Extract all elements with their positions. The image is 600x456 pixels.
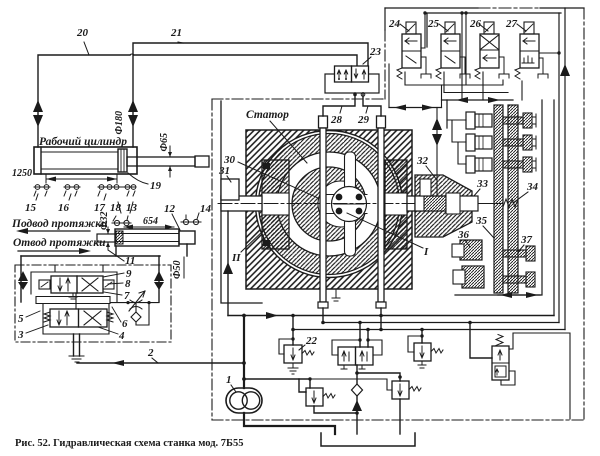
relief valve right: [408, 336, 443, 368]
bolt row 3: [503, 157, 536, 172]
dimension 654: [124, 225, 174, 230]
center valve drains: [341, 365, 365, 369]
leaders 6 4: [98, 307, 121, 334]
label 12: [164, 203, 180, 230]
svg-text:5: 5: [18, 313, 24, 325]
node pump top: [242, 314, 246, 318]
svg-text:Ф50: Ф50: [172, 260, 183, 279]
wires between valves 25/26: [421, 11, 468, 100]
svg-text:6: 6: [122, 318, 128, 330]
upper valve solenoid right: [103, 280, 114, 289]
right bus wire B: [558, 13, 560, 323]
wire between check and valve drop: [355, 371, 402, 381]
machine dash-dot boundary mid horizontal: [212, 98, 385, 100]
flow double-arrow on wire 21: [128, 100, 138, 127]
valve 23 body: [335, 66, 369, 82]
crosshead circle: [332, 187, 367, 222]
manifold arrows below valves 24-25: [389, 64, 442, 111]
broach cylinder rod: [97, 234, 116, 242]
center valve bottom wire: [356, 365, 358, 373]
label 11: [108, 250, 135, 267]
leader ticks for 15-18,13: [36, 194, 133, 213]
svg-text:Статор: Статор: [246, 109, 289, 121]
shaft centerline: [218, 203, 478, 205]
working cylinder piston: [118, 149, 127, 172]
svg-text:Подвод протяжки: Подвод протяжки: [11, 218, 108, 230]
lower spool valve outline: [43, 304, 109, 334]
leaders 9 8 7: [103, 273, 124, 295]
svg-text:II: II: [231, 252, 241, 264]
solenoid valve 24: [397, 22, 431, 79]
svg-text:8: 8: [125, 278, 131, 290]
svg-text:Ф180: Ф180: [114, 111, 125, 135]
label 35: [475, 215, 494, 238]
svg-text:21: 21: [170, 27, 182, 39]
machine dash-dot boundary bottom: [212, 419, 584, 421]
svg-text:1250: 1250: [12, 168, 32, 179]
left trunnion block: [262, 160, 289, 249]
lower bolt second: [503, 272, 535, 287]
svg-text:7: 7: [124, 290, 130, 302]
upper valve solenoid left: [39, 280, 50, 289]
svg-text:37: 37: [520, 234, 533, 246]
label Статор: [246, 109, 307, 163]
label II: [231, 229, 265, 264]
label I: [347, 213, 429, 258]
valve 22: [279, 339, 314, 374]
lower bolt 37: [503, 246, 535, 261]
solenoid valve 26: [475, 22, 509, 79]
rotor drum hatched ring: [292, 167, 366, 241]
svg-text:654: 654: [143, 216, 158, 227]
control block dash-dot boundary: [15, 265, 171, 342]
relief valve right drop: [420, 328, 424, 343]
label 23: [363, 46, 382, 64]
rotor lower port slot: [345, 218, 356, 256]
node line2: [242, 361, 246, 365]
svg-text:25: 25: [427, 18, 440, 30]
coupling circles 18/13: [112, 216, 131, 226]
tank: [321, 433, 415, 446]
drain line from lower valve: [69, 334, 84, 362]
svg-text:29: 29: [357, 114, 370, 126]
svg-text:3: 3: [17, 329, 24, 341]
manifold line P3: [293, 329, 565, 331]
machine dash-dot boundary right: [583, 8, 585, 420]
label 24: [388, 18, 409, 31]
svg-text:35: 35: [475, 215, 488, 227]
label 31: [218, 165, 231, 182]
wire from trunnion to manifold: [223, 211, 233, 316]
svg-text:15: 15: [25, 202, 37, 214]
broach cylinder base lines: [21, 244, 187, 256]
valve 22 drop wire: [291, 314, 295, 345]
labels 6 4: [118, 318, 128, 342]
lower follower block second: [453, 266, 484, 288]
wire valve 27 to right bus: [539, 51, 561, 54]
upper spool valve body: [51, 276, 103, 293]
svg-text:27: 27: [505, 18, 518, 30]
sequence valve (right): [492, 333, 570, 419]
pilot line lower: [242, 377, 312, 392]
svg-text:14: 14: [200, 203, 212, 215]
lower spool valve body: [50, 309, 107, 327]
label 33: [473, 178, 489, 197]
machine dash-dot boundary left: [211, 99, 213, 420]
line 2: [77, 360, 244, 366]
rotor upper port slot: [345, 152, 356, 190]
svg-text:32: 32: [416, 155, 429, 167]
lower valve end springs: [44, 312, 113, 322]
cam follower housing 32: [415, 175, 478, 237]
upper valve drain: [69, 293, 77, 299]
manifold arrows at right block top: [442, 97, 514, 103]
labels 15 16 17 18 13: [25, 202, 138, 214]
stepped wires to pistons: [447, 120, 466, 164]
manifold line P1: [228, 312, 554, 319]
label 22: [299, 335, 318, 350]
column 29: [376, 116, 386, 308]
right bus wire A: [553, 100, 555, 316]
piston pair row 1: [466, 112, 492, 129]
check valve to tank: [352, 373, 363, 434]
solenoid valve 25: [436, 22, 470, 79]
dimension 1250 line: [46, 174, 117, 183]
label 28: [330, 106, 343, 126]
right bus wire C with up arrow: [560, 8, 570, 330]
svg-text:34: 34: [526, 181, 539, 193]
svg-text:16: 16: [58, 202, 70, 214]
feed wire left with double arrow: [18, 256, 28, 302]
label 2: [147, 347, 158, 363]
bolt row 1: [503, 113, 536, 128]
label 27: [505, 18, 526, 31]
stator ring hatched annulus: [259, 134, 400, 275]
dimension arrows Ф32: [106, 227, 110, 249]
valve output wires to manifold: [405, 72, 522, 108]
svg-text:Ф65: Ф65: [159, 133, 170, 152]
pump pressure wire: [243, 316, 245, 388]
left shaft 31: [221, 179, 262, 211]
label 37: [518, 234, 533, 252]
working cylinder body: [34, 147, 137, 174]
arrow отвод (right): [18, 248, 91, 254]
wire 20: [38, 42, 357, 147]
svg-text:23: 23: [369, 46, 382, 58]
solenoid valve 27: [515, 22, 548, 79]
stator housing hatched square: [246, 130, 412, 289]
leaders 5 3: [26, 311, 48, 333]
wire with up-down arrows: [432, 108, 442, 204]
svg-text:28: 28: [330, 114, 343, 126]
throttle with check valve 6: [110, 291, 159, 325]
plate strip B: [508, 105, 518, 293]
label 1: [226, 374, 236, 392]
label 29: [357, 106, 370, 126]
column 28: [318, 116, 328, 308]
labels 5 3: [17, 313, 24, 341]
column 29 drop wire: [379, 308, 383, 331]
pump 1: [226, 388, 262, 413]
coupling circles 14: [181, 213, 201, 225]
svg-text:Рис. 52. Гидравлическая схема: Рис. 52. Гидравлическая схема станка мод…: [15, 438, 244, 449]
label 30: [223, 154, 318, 198]
crosshead rollers: [334, 194, 364, 214]
svg-text:2: 2: [147, 347, 154, 359]
stator section solid border: [221, 101, 262, 303]
lower-left relief valve: [306, 388, 359, 415]
arrow подвод (left): [16, 228, 90, 234]
svg-text:20: 20: [76, 27, 89, 39]
svg-text:19: 19: [150, 180, 162, 192]
labels 9 8 7: [124, 268, 132, 302]
svg-text:30: 30: [223, 154, 236, 166]
sequence valve drop wire: [468, 321, 492, 358]
svg-text:22: 22: [305, 335, 318, 347]
right trunnion block: [385, 160, 407, 249]
piston pair row 3: [466, 156, 492, 173]
manifold line P2: [323, 322, 559, 324]
svg-text:1: 1: [226, 374, 232, 386]
plate strip A: [494, 105, 503, 293]
block bottom arrows: [498, 292, 540, 298]
label 25: [427, 18, 448, 31]
svg-text:Рабочий цилиндр: Рабочий цилиндр: [39, 135, 127, 148]
crosshead slide slot: [325, 195, 367, 214]
svg-text:31: 31: [218, 165, 230, 177]
pump suction wire: [244, 413, 335, 434]
machine dash-dot boundary mid vertical: [384, 8, 386, 30]
svg-text:Отвод протяжки: Отвод протяжки: [13, 237, 106, 249]
svg-text:33: 33: [476, 178, 489, 190]
working cylinder rod: [127, 156, 209, 167]
label 36: [457, 229, 470, 247]
svg-text:36: 36: [457, 229, 470, 241]
svg-text:24: 24: [388, 18, 401, 30]
label 32: [416, 155, 437, 180]
right block outline: [447, 100, 542, 295]
broach cylinder end cap 12: [179, 231, 195, 244]
upper spool valve outline: [31, 272, 117, 302]
lower-right relief valve: [244, 379, 421, 434]
lower follower block 36: [452, 240, 482, 260]
machine dash-dot boundary top: [385, 7, 584, 9]
valve 23 port wires to columns: [323, 93, 381, 116]
grips under cylinder (clamp rollers): [34, 185, 136, 196]
svg-text:I: I: [423, 246, 429, 258]
svg-text:12: 12: [164, 203, 176, 215]
piston pair row 2: [466, 134, 492, 151]
feed wire right with double arrow: [154, 256, 164, 302]
center dual check valve: [332, 340, 382, 365]
wire 21: [133, 42, 368, 147]
broach cylinder body: [115, 229, 179, 246]
stator drain: [332, 289, 340, 301]
label 34: [513, 181, 539, 203]
top-right inner border: [427, 13, 561, 47]
inter-valve manifold: [36, 293, 110, 309]
svg-text:4: 4: [118, 330, 125, 342]
column 28 drop wire: [321, 308, 325, 324]
dimension arrows Ф65: [168, 146, 172, 177]
right shaft to valve: [407, 196, 422, 211]
bolt row 2: [503, 135, 536, 150]
label 26: [469, 18, 488, 31]
flow double-arrow on wire 20: [33, 100, 43, 127]
spring 34: [478, 199, 518, 207]
valve 23 subplate: [325, 74, 379, 93]
center dual check valve feeds: [358, 321, 370, 347]
label 19: [128, 173, 162, 192]
